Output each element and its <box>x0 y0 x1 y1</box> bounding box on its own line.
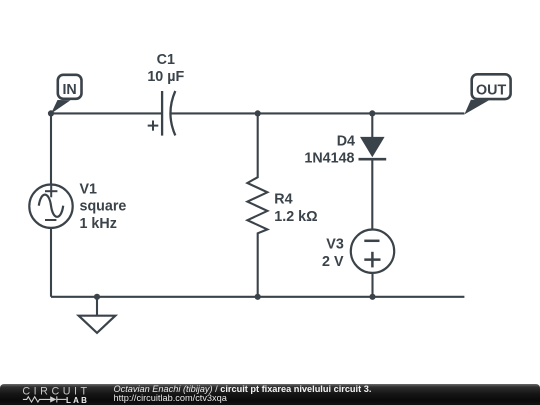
wire V1 bottom to bottom rail <box>50 229 52 297</box>
svg-text:OUT: OUT <box>476 82 506 98</box>
wire left vertical IN node to V1 top <box>50 113 52 184</box>
voltage source V1 <box>29 185 72 228</box>
footer bar <box>0 384 540 405</box>
wire bottom rail <box>51 296 464 298</box>
label V3 value <box>322 236 344 269</box>
label R4 value <box>274 192 317 225</box>
junction node at IN <box>48 110 54 116</box>
svg-text:V3: V3 <box>326 236 344 252</box>
label D4 value <box>304 133 355 166</box>
svg-text:square: square <box>80 199 127 215</box>
node IN flag <box>51 75 82 114</box>
junction node at ground <box>94 294 100 300</box>
junction node at R4 bottom <box>255 294 261 300</box>
svg-text:IN: IN <box>62 82 76 98</box>
svg-text:1 kHz: 1 kHz <box>80 216 117 232</box>
svg-text:1.2 kΩ: 1.2 kΩ <box>274 209 317 225</box>
junction node at D4 top <box>369 110 375 116</box>
diode D4 <box>359 113 387 229</box>
CircuitLab logo <box>0 384 100 405</box>
svg-text:R4: R4 <box>274 192 292 208</box>
resistor R4 <box>247 113 267 296</box>
capacitor C1 <box>148 91 176 136</box>
junction node at V3 bottom <box>369 294 375 300</box>
label V1 value <box>80 181 127 232</box>
svg-text:D4: D4 <box>337 133 355 149</box>
label C1 value <box>147 52 184 85</box>
svg-text:1N4148: 1N4148 <box>304 150 354 166</box>
svg-text:V1: V1 <box>80 181 98 197</box>
svg-text:10 µF: 10 µF <box>147 69 184 85</box>
node OUT flag <box>464 74 510 114</box>
svg-text:2 V: 2 V <box>322 254 344 270</box>
junction node at R4 top <box>255 110 261 116</box>
voltage source V3 <box>351 230 394 297</box>
ground <box>79 297 116 333</box>
svg-text:C1: C1 <box>157 52 175 68</box>
wire top rail from IN node to C1 left plate <box>51 112 162 114</box>
wire top rail from C1 to OUT end <box>171 112 465 114</box>
svg-text:LAB: LAB <box>66 396 89 405</box>
